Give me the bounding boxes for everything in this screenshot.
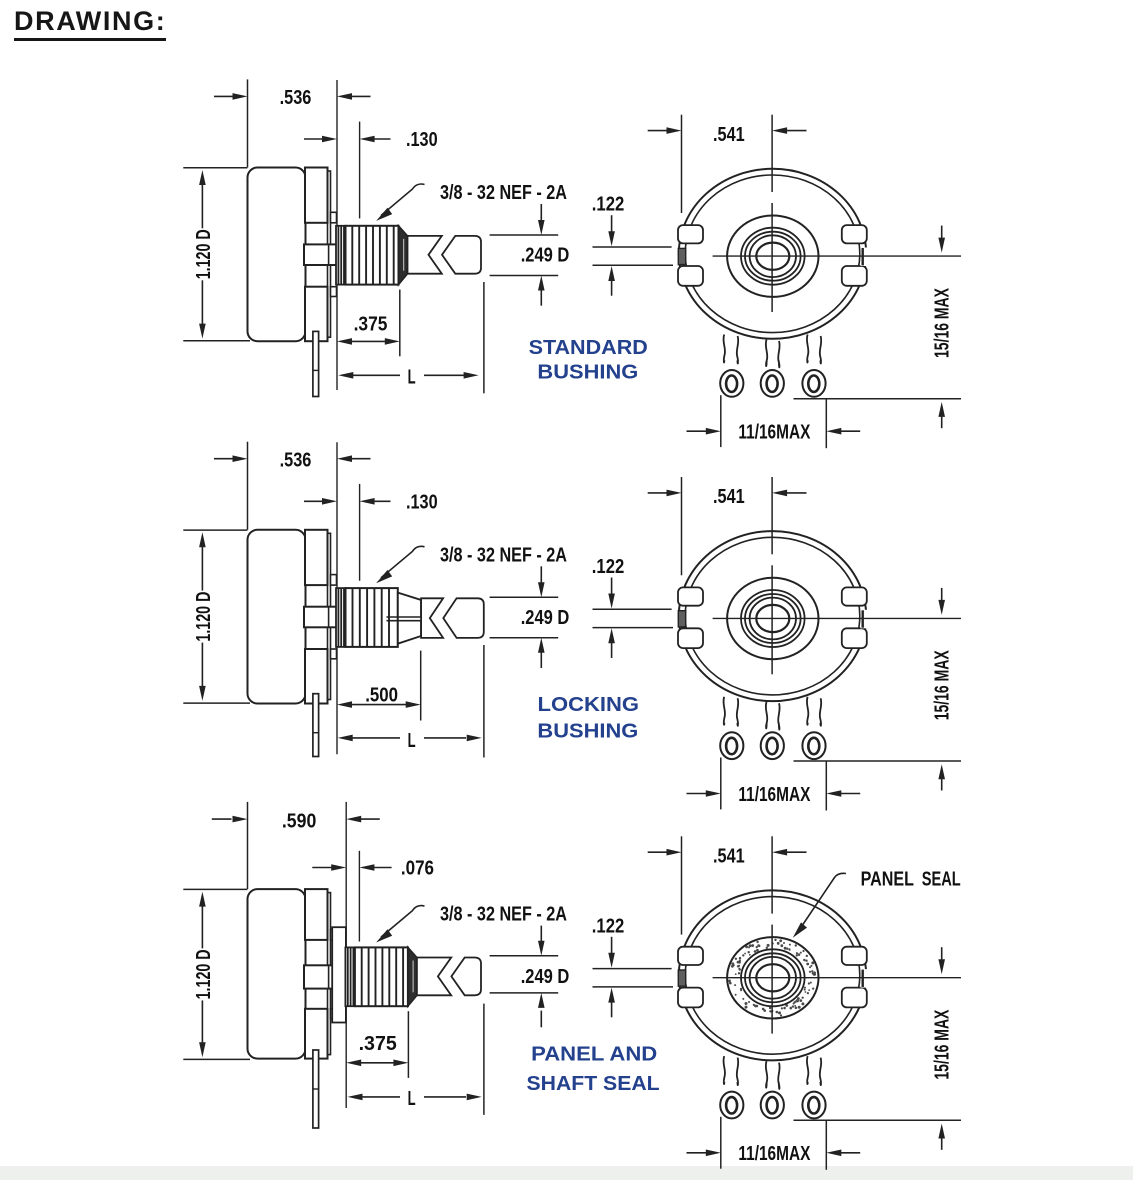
- svg-text:.536: .536: [280, 450, 312, 472]
- bracket upper arm, row1: [305, 168, 337, 223]
- construction line: boss front, row1: [359, 122, 361, 219]
- svg-text:SHAFT SEAL: SHAFT SEAL: [527, 1073, 660, 1095]
- svg-text:L: L: [408, 1088, 416, 1110]
- locating tab, row3: [304, 965, 359, 988]
- locking slot in nose, row2: [387, 617, 423, 621]
- threaded bushing 3/8-32, row2: [346, 588, 398, 647]
- svg-text:1.120 D: 1.120 D: [193, 592, 215, 642]
- mounting bracket rear band, row2: [328, 533, 331, 699]
- dimension 11/16MAX, row2: [687, 758, 861, 811]
- potentiometer body (can), row3: [248, 889, 306, 1059]
- terminal pin (side view), row2: [313, 694, 319, 757]
- bushing thread undercut, row2: [336, 588, 346, 647]
- svg-text:.122: .122: [592, 556, 625, 578]
- panel keying notches, row1: [678, 225, 867, 286]
- svg-text:STANDARD: STANDARD: [529, 337, 648, 359]
- svg-text:.375: .375: [354, 313, 388, 335]
- concentric bushing/shaft rings, row2: [741, 590, 805, 647]
- svg-text:.536: .536: [280, 87, 312, 109]
- svg-text:PANEL AND: PANEL AND: [531, 1043, 657, 1065]
- bushing circle, row2: [727, 578, 818, 659]
- dimension .541, row3: [648, 836, 807, 934]
- svg-text:3/8 - 32 NEF - 2A: 3/8 - 32 NEF - 2A: [440, 182, 567, 204]
- construction line: boss front, row2: [359, 484, 361, 581]
- right lug slot, row3: [861, 969, 870, 988]
- bushing end chamfer, row3: [408, 947, 417, 1006]
- horizontal centerline, row2: [713, 617, 961, 619]
- label PANEL AND SHAFT SEAL: [527, 1043, 660, 1095]
- left locating lug slot, row2: [678, 611, 685, 627]
- svg-text:.249 D: .249 D: [521, 607, 570, 629]
- bracket lower arm, row1: [305, 287, 337, 342]
- potentiometer body (can), row2: [248, 530, 306, 704]
- threaded bushing 3/8-32, row3: [355, 947, 408, 1006]
- panel keying notches, row2: [678, 587, 867, 648]
- svg-text:1.120 D: 1.120 D: [193, 229, 215, 279]
- svg-text:15/16 MAX: 15/16 MAX: [932, 288, 954, 358]
- svg-text:.541: .541: [713, 486, 745, 508]
- dimension 1.120 D, row1: [183, 168, 250, 341]
- locating tab, row2: [304, 607, 359, 628]
- locating tab, row1: [304, 244, 359, 265]
- dimension .536, row1: [214, 79, 371, 167]
- left terminal lug, row2: [720, 697, 743, 759]
- svg-text:.122: .122: [592, 915, 625, 937]
- dimension .541, row1: [648, 115, 807, 213]
- dimension .249 D, row3: [490, 926, 570, 1028]
- svg-text:PANEL: PANEL: [861, 868, 914, 890]
- left locating lug slot, row1: [678, 248, 685, 264]
- svg-text:BUSHING: BUSHING: [537, 362, 638, 384]
- vertical centerline, row3: [771, 836, 773, 1033]
- threaded bushing 3/8-32, row1: [346, 226, 399, 285]
- svg-text:.500: .500: [365, 684, 398, 706]
- dimension .536, row2: [214, 442, 371, 530]
- svg-text:SEAL: SEAL: [922, 868, 961, 890]
- svg-text:BUSHING: BUSHING: [537, 721, 638, 743]
- dimension L, row3: [348, 1004, 484, 1115]
- right lug slot, row1: [861, 248, 870, 267]
- dimension L, row2: [338, 645, 484, 758]
- dimension 15/16 MAX, row1: [794, 226, 962, 429]
- mounting bracket rear band, row1: [328, 171, 331, 337]
- panel seal stippled ring, row3: [728, 939, 816, 1017]
- center terminal lug, row3: [761, 1061, 784, 1118]
- dimension 15/16 MAX, row2: [794, 588, 962, 791]
- svg-text:.130: .130: [406, 491, 438, 513]
- page bottom band: [0, 1166, 1133, 1180]
- svg-text:11/16MAX: 11/16MAX: [738, 784, 811, 806]
- horizontal centerline, row3: [713, 977, 961, 979]
- dimension .130, row2: [304, 491, 438, 513]
- bracket upper arm, row3: [305, 889, 337, 940]
- shaft with break symbol, row2: [421, 598, 484, 638]
- bushing thread undercut, row1: [336, 226, 346, 285]
- dimension 1.120 D, row3: [183, 889, 250, 1059]
- center terminal lug, row2: [761, 702, 784, 759]
- dimension .122, row2: [592, 556, 673, 658]
- construction line: mounting face, row1: [336, 80, 338, 390]
- shaft with break symbol, row3: [417, 958, 481, 996]
- bushing thread undercut, row3: [345, 947, 355, 1006]
- center terminal lug, row1: [761, 340, 784, 397]
- left locating lug slot, row3: [678, 970, 685, 986]
- svg-text:LOCKING: LOCKING: [538, 694, 640, 716]
- thread spec label 3/8 - 32 NEF - 2A, row1: [376, 182, 567, 221]
- dimension .249 D, row1: [490, 204, 570, 306]
- bracket lower arm, row2: [305, 649, 337, 704]
- right lug slot, row2: [861, 610, 870, 629]
- thread spec label 3/8 - 32 NEF - 2A, row2: [376, 544, 567, 583]
- svg-text:L: L: [408, 366, 416, 388]
- dimension .541, row2: [648, 477, 807, 575]
- dimension 11/16MAX, row1: [687, 395, 861, 448]
- right terminal lug, row2: [802, 697, 825, 759]
- dimension .130, row1: [304, 129, 438, 151]
- dimension .249 D, row2: [490, 566, 570, 668]
- dimension .590, row3: [212, 802, 380, 889]
- terminal pin (side view), row1: [313, 331, 319, 396]
- label PANEL SEAL with leader: [793, 868, 961, 938]
- dimension .375, row1: [337, 290, 400, 357]
- svg-text:.541: .541: [713, 845, 745, 867]
- dimension L, row1: [338, 282, 484, 393]
- svg-text:.249 D: .249 D: [521, 245, 570, 267]
- svg-text:3/8 - 32 NEF - 2A: 3/8 - 32 NEF - 2A: [440, 904, 567, 926]
- left terminal lug, row3: [720, 1056, 743, 1118]
- concentric bushing/shaft rings, row3: [741, 949, 805, 1006]
- thread spec label 3/8 - 32 NEF - 2A, row3: [376, 904, 567, 943]
- panel keying notches, row3: [678, 947, 867, 1008]
- right terminal lug, row1: [802, 335, 825, 397]
- dimension 15/16 MAX, row3: [794, 947, 962, 1150]
- construction line: mounting face, row3: [345, 802, 347, 1108]
- page title: [14, 6, 166, 41]
- dimension .500, row2: [337, 651, 421, 721]
- dimension .122, row1: [592, 194, 673, 296]
- left terminal lug, row1: [720, 335, 743, 397]
- bracket upper arm, row2: [305, 530, 337, 585]
- shaft with break symbol, row1: [408, 236, 482, 274]
- svg-text:15/16 MAX: 15/16 MAX: [932, 650, 954, 720]
- bushing circle, row1: [727, 216, 818, 297]
- svg-text:.590: .590: [282, 811, 316, 833]
- label STANDARD BUSHING: [529, 337, 648, 384]
- front view outer rim circle, row1: [679, 169, 866, 339]
- front view outer rim circle, row2: [679, 531, 866, 701]
- bracket lower arm, row3: [305, 1009, 337, 1059]
- construction line: mounting face, row2: [336, 442, 338, 754]
- svg-text:3/8 - 32 NEF - 2A: 3/8 - 32 NEF - 2A: [440, 544, 567, 566]
- construction line: boss front, row3: [358, 851, 360, 942]
- dimension .375, row3: [346, 1011, 408, 1078]
- concentric bushing/shaft rings, row1: [741, 228, 805, 285]
- panel seal washer (side view), row3: [332, 927, 346, 1022]
- label LOCKING BUSHING: [537, 694, 639, 743]
- svg-text:15/16 MAX: 15/16 MAX: [932, 1009, 954, 1079]
- horizontal centerline, row1: [713, 255, 961, 257]
- svg-text:L: L: [408, 730, 416, 752]
- terminal pin (side view), row3: [313, 1050, 319, 1128]
- svg-text:.076: .076: [401, 858, 434, 880]
- svg-text:.541: .541: [713, 124, 745, 146]
- right terminal lug, row3: [802, 1056, 825, 1118]
- svg-text:11/16MAX: 11/16MAX: [738, 422, 811, 444]
- vertical centerline, row2: [771, 477, 773, 674]
- dimension 11/16MAX, row3: [687, 1117, 861, 1170]
- svg-text:11/16MAX: 11/16MAX: [738, 1143, 811, 1165]
- front view outer rim circle, row3: [679, 890, 866, 1060]
- svg-text:.375: .375: [359, 1033, 397, 1055]
- svg-text:.249 D: .249 D: [521, 966, 570, 988]
- locking taper nose, row2: [398, 593, 421, 644]
- bushing circle, row3: [727, 937, 818, 1018]
- bushing end chamfer, row1: [399, 226, 408, 285]
- vertical centerline, row1: [771, 115, 773, 312]
- dimension 1.120 D, row2: [183, 530, 250, 703]
- svg-text:1.120 D: 1.120 D: [193, 949, 215, 999]
- dimension .122, row3: [592, 915, 673, 1017]
- mounting bracket rear band, row3: [328, 893, 331, 1055]
- dimension .076, row3: [312, 858, 434, 880]
- svg-text:.130: .130: [406, 129, 438, 151]
- svg-text:.122: .122: [592, 194, 625, 216]
- potentiometer body (can), row1: [248, 168, 306, 342]
